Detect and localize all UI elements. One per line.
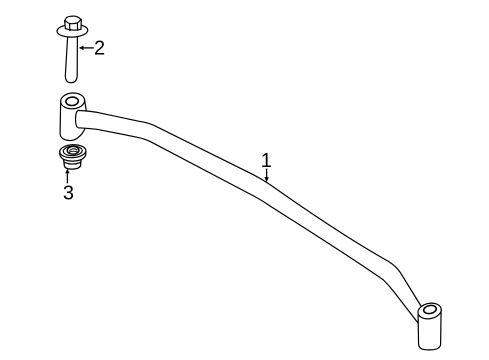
svg-text:3: 3: [63, 182, 74, 204]
svg-text:2: 2: [94, 38, 105, 60]
label 2 arrow: [79, 46, 94, 51]
nut flange top ellipse: [59, 144, 86, 158]
right cylinder top ellipse: [417, 301, 443, 321]
bolt hex head: [65, 16, 82, 30]
nut hole: [67, 146, 79, 154]
right cylinder inner hole: [423, 304, 437, 314]
bolt flange: [57, 24, 88, 38]
nut top inner ellipse: [63, 146, 82, 156]
left bushing body: [60, 100, 86, 140]
bolt shaft: [65, 34, 77, 83]
left bushing top ellipse: [60, 92, 85, 109]
nut threads: [69, 149, 77, 151]
bar (item 1 body): [76, 110, 421, 322]
left bushing inner hole: [66, 97, 79, 106]
svg-text:1: 1: [261, 150, 272, 172]
label 3 arrow: [65, 169, 69, 184]
nut boss crease: [64, 162, 81, 164]
nut flange body: [60, 151, 86, 161]
right cylinder body: [418, 309, 441, 350]
nut boss: [64, 159, 82, 170]
label 1 arrow: [264, 169, 268, 183]
